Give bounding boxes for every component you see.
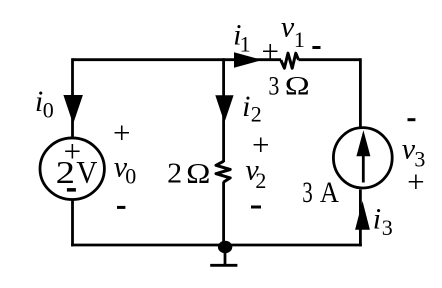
svg-text:+: + xyxy=(407,164,424,199)
voltage source V1 circle (2 V) xyxy=(40,138,104,200)
svg-text:+: + xyxy=(252,127,269,162)
svg-text:v: v xyxy=(281,11,295,44)
wire right vertical segment (current source to bottom-right corner) xyxy=(359,190,362,247)
svg-text:0: 0 xyxy=(43,97,54,122)
svg-text:3: 3 xyxy=(302,176,313,209)
svg-text:2: 2 xyxy=(251,101,262,126)
wire middle vertical segment (top node to resistor R2) xyxy=(222,58,225,162)
label i3 xyxy=(373,203,393,240)
svg-text:0: 0 xyxy=(125,164,136,189)
label minus inside voltage source xyxy=(67,188,76,192)
label v3 xyxy=(402,133,426,172)
label minus of v2 xyxy=(251,206,261,209)
svg-text:3: 3 xyxy=(382,215,393,240)
resistor R1 3 ohm zigzag (top) xyxy=(281,53,299,68)
label i0 xyxy=(35,85,54,122)
current source I1 arrow (pointing up) xyxy=(356,130,370,182)
label v0 xyxy=(114,150,137,188)
svg-text:2: 2 xyxy=(56,154,75,190)
svg-text:1: 1 xyxy=(240,32,251,57)
svg-text:3: 3 xyxy=(268,70,279,100)
wire top horizontal right segment (R1 to top-right corner) xyxy=(299,58,361,61)
label minus of v1 xyxy=(312,46,320,49)
ground symbol xyxy=(210,246,237,265)
wire middle vertical segment (R2 to bottom node) xyxy=(222,182,225,247)
svg-text:+: + xyxy=(262,33,279,68)
current arrow i3 (up, on right wire below source) xyxy=(355,201,370,230)
svg-text:i: i xyxy=(242,90,250,123)
wire left vertical segment (voltage source to bottom corner) xyxy=(71,200,74,246)
current arrow i1 (right, on top wire) xyxy=(234,52,262,68)
label v1 xyxy=(281,11,305,52)
wire right vertical segment (top-right corner to current source) xyxy=(359,58,362,127)
svg-text:2: 2 xyxy=(167,158,182,189)
wire bottom horizontal (ground net) xyxy=(71,244,362,247)
label i2 xyxy=(242,90,262,126)
resistor R2 2 ohm zigzag (middle) xyxy=(216,161,230,182)
wire top horizontal left segment (top-left corner to resistor R1) xyxy=(73,58,282,61)
wire left vertical segment (top corner to voltage source) xyxy=(71,58,74,137)
label i1 xyxy=(233,18,251,56)
svg-text:+: + xyxy=(113,115,130,150)
svg-text:i: i xyxy=(373,203,381,236)
svg-text:2: 2 xyxy=(255,168,266,193)
current arrow i2 (down, on middle wire) xyxy=(215,95,233,122)
label minus of v3 xyxy=(408,118,416,121)
label minus of v0 xyxy=(117,206,125,209)
svg-text:V: V xyxy=(76,154,97,190)
current arrow i0 (down, on left wire) xyxy=(63,95,83,124)
svg-text:1: 1 xyxy=(294,27,305,52)
svg-text:Ω: Ω xyxy=(186,159,210,190)
svg-text:A: A xyxy=(320,176,339,209)
label v2 xyxy=(245,153,266,192)
svg-text:Ω: Ω xyxy=(285,71,310,101)
current source I1 circle (3 A) xyxy=(333,128,392,188)
node junction dot (bottom middle) xyxy=(218,241,232,253)
